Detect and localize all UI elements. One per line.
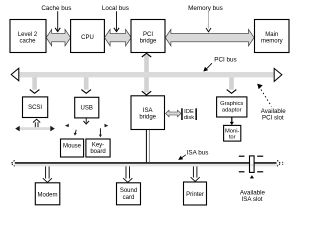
wire: ISA bus to Sound card hollow arrow — [123, 166, 132, 182]
svg-text:ISA bus: ISA bus — [187, 150, 209, 157]
box: Level 2 cache — [10, 20, 46, 53]
box: CPU — [71, 20, 105, 53]
svg-text:Modem: Modem — [37, 192, 57, 198]
svg-text:cache: cache — [19, 38, 36, 44]
svg-text:Local bus: Local bus — [102, 5, 129, 12]
box: USB — [75, 97, 99, 118]
IDE double arrow (ISA bridge to IDE disk) — [166, 110, 181, 117]
box: Modem — [35, 183, 60, 205]
available ISA slot symbol (dashed card slot) — [239, 156, 263, 179]
label: Cache bus — [41, 5, 71, 31]
memory bus arrow (PCI bridge to Main memory) — [165, 29, 254, 46]
label: Available PCI slot with dashed arrow — [257, 84, 286, 122]
svg-text:PCI: PCI — [143, 32, 153, 38]
svg-text:Printer: Printer — [186, 192, 204, 198]
IDE disk symbol — [181, 108, 197, 121]
wire: ISA bus to Printer hollow arrow — [191, 166, 200, 181]
label: Local bus — [102, 5, 129, 32]
wire: ISA bridge to ISA bus double line — [146, 130, 149, 162]
svg-text:Memory bus: Memory bus — [188, 5, 223, 12]
svg-text:Cache bus: Cache bus — [41, 5, 71, 12]
svg-text:Key-: Key- — [92, 143, 104, 149]
cache bus arrow (Level 2 cache to CPU) — [46, 29, 70, 46]
box: Main memory — [255, 20, 290, 53]
svg-text:disk: disk — [184, 115, 194, 121]
box: Keyboard — [86, 139, 110, 157]
SCSI external cable: hollow up-arrow and double-headed gray bar — [15, 119, 55, 131]
svg-text:USB: USB — [81, 105, 93, 111]
svg-text:card: card — [123, 195, 135, 201]
local bus arrow (CPU to PCI bridge) — [105, 29, 132, 46]
svg-text:Mouse: Mouse — [63, 144, 82, 150]
label: Memory bus — [188, 5, 223, 32]
bus: PCI bus bar — [19, 72, 275, 77]
label: Available ISA slot — [240, 189, 266, 203]
label: ISA bus — [178, 150, 208, 160]
svg-text:PCI slot: PCI slot — [262, 114, 284, 121]
svg-text:bridge: bridge — [140, 38, 157, 44]
box: Graphics adaptor — [217, 97, 247, 117]
svg-text:PCI bus: PCI bus — [214, 56, 236, 63]
svg-text:SCSI: SCSI — [28, 105, 42, 111]
svg-text:Moni-: Moni- — [225, 128, 240, 134]
bus: ISA bus — [11, 160, 284, 166]
svg-text:Sound: Sound — [120, 188, 137, 194]
svg-text:ISA slot: ISA slot — [242, 196, 263, 203]
svg-text:Main: Main — [265, 32, 278, 38]
svg-text:memory: memory — [261, 38, 283, 44]
svg-text:tor: tor — [229, 135, 236, 141]
USB fork arrows to Mouse and Keyboard — [65, 118, 108, 137]
wire: ISA bus to Modem hollow arrow — [43, 166, 52, 182]
box: Mouse — [61, 139, 84, 157]
svg-text:board: board — [90, 149, 105, 155]
wire: gray stub from PCI bridge down to ISA bridge — [142, 53, 151, 95]
svg-text:bridge: bridge — [139, 114, 156, 120]
box: Printer — [184, 182, 207, 205]
box: Monitor — [224, 125, 241, 141]
label: PCI bus — [203, 56, 236, 71]
PCI bus right arrowhead — [274, 68, 282, 81]
box: PCI bridge — [131, 20, 165, 53]
box: SCSI — [23, 97, 48, 118]
PCI bus left arrowhead — [11, 68, 19, 81]
wire: gray stub PCI bus to Graphics adaptor — [227, 77, 237, 93]
svg-text:ISA: ISA — [143, 108, 153, 114]
wire: gray stub PCI bus to SCSI — [30, 77, 40, 93]
wire: gray stub PCI bus to USB — [81, 77, 91, 93]
svg-text:adaptor: adaptor — [222, 108, 242, 114]
wire: Graphics adaptor to Monitor arrow — [230, 117, 234, 125]
box: ISA bridge — [131, 96, 165, 130]
box: Sound card — [117, 183, 141, 205]
svg-text:CPU: CPU — [81, 35, 94, 41]
svg-text:Graphics: Graphics — [220, 101, 243, 107]
svg-text:Level 2: Level 2 — [18, 32, 38, 38]
